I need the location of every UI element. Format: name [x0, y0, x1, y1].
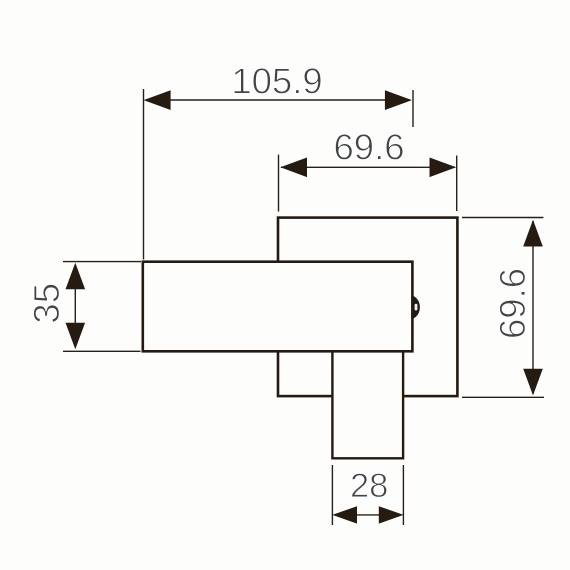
spout body	[332, 351, 403, 458]
extension line 28 right	[402, 465, 404, 525]
arrowhead 69.6 right up	[523, 220, 543, 247]
svg-text:35: 35	[26, 283, 67, 324]
arrowhead 69.6 top left	[280, 158, 307, 178]
screw slot	[415, 304, 418, 311]
arrowhead 35 up	[66, 263, 86, 290]
extension line 35 top	[63, 261, 141, 263]
extension line 105.9 left (handle left edge)	[143, 89, 145, 260]
arrowhead 69.6 top right	[430, 158, 457, 178]
arrowhead 105.9 right	[385, 90, 412, 110]
arrowhead 28 right (points right)	[379, 506, 404, 523]
lever handle	[143, 262, 413, 352]
dimension line 69.6 right	[532, 221, 534, 394]
extension line 35 bottom	[63, 350, 141, 352]
arrowhead 69.6 right down	[523, 369, 543, 396]
extension line 69.6 right lower	[462, 396, 544, 398]
dimension line 105.9	[146, 99, 410, 101]
extension line 69.6 top right	[456, 156, 458, 212]
svg-text:105.9: 105.9	[231, 60, 322, 101]
extension line 105.9 right (handle right edge)	[412, 90, 414, 127]
svg-text:69.6: 69.6	[333, 126, 404, 167]
arrowhead 105.9 left	[144, 90, 171, 110]
dimension line 28	[355, 514, 381, 516]
arrowhead 28 left (points left)	[332, 506, 357, 523]
dimension line 35	[74, 265, 76, 348]
wall plate (square escutcheon)	[278, 218, 457, 397]
extension line 69.6 top left	[278, 155, 280, 212]
handle hub screw detail	[411, 295, 420, 319]
extension line 69.6 right upper	[462, 217, 544, 219]
svg-text:69.6: 69.6	[492, 268, 533, 339]
arrowhead 35 down	[66, 323, 86, 350]
extension line 28 left	[331, 465, 333, 525]
dimension line 69.6 top	[281, 166, 455, 168]
svg-text:28: 28	[350, 467, 388, 505]
